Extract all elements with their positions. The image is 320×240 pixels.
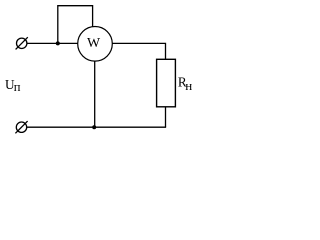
junction dot (node A) [56,41,60,45]
junction dot (node B) [92,125,96,129]
wire (bottom) [27,126,166,128]
resistor Rн [157,59,176,107]
svg-text:п: п [14,80,21,94]
terminal (input, top) [16,37,28,49]
wire (top right) [112,43,165,59]
wattmeter W (meter circle) [78,27,113,62]
wire (wattmeter bottom) [94,61,96,127]
wire (resistor bottom stub) [165,107,167,127]
wire (voltage coil loop) [58,6,93,44]
terminal (input, bottom) [15,121,27,133]
wire (top left) [27,42,78,44]
svg-text:W: W [87,36,101,51]
svg-text:н: н [185,78,192,93]
